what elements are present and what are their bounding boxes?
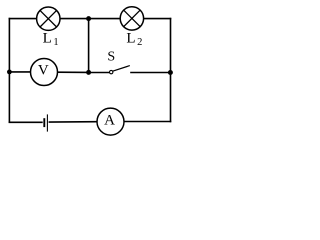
junction node top center [86, 16, 91, 21]
svg-text:L2: L2 [126, 31, 142, 49]
lamp L1 [37, 7, 60, 30]
wire voltmeter branch right [58, 71, 90, 73]
wire top rail left segment [9, 18, 37, 20]
wire switch left lead [89, 72, 110, 74]
wire bottom rail right segment (ammeter to right rail) [124, 121, 171, 123]
wire top rail right segment [144, 18, 172, 20]
switch S [110, 66, 130, 74]
voltmeter V [31, 59, 58, 86]
wire bottom rail middle segment (battery to ammeter) [49, 121, 97, 123]
svg-text:A: A [104, 113, 115, 129]
wire bottom rail left segment (to battery) [9, 121, 43, 123]
svg-text:V: V [38, 62, 49, 78]
svg-text:L1: L1 [43, 31, 59, 49]
wire right rail [170, 18, 172, 123]
wire top rail middle segment [60, 18, 121, 20]
svg-text:S: S [107, 50, 115, 65]
junction node right rail [168, 70, 173, 75]
wire left rail [8, 18, 10, 123]
lamp L2 [120, 7, 143, 30]
battery cell [44, 114, 47, 131]
junction node left rail [7, 70, 12, 75]
junction node middle center [86, 70, 91, 75]
wire voltmeter branch left [9, 71, 31, 73]
wire switch right lead [130, 72, 170, 74]
wire center vertical (top junction to middle junction) [88, 19, 90, 73]
ammeter A [97, 108, 124, 135]
